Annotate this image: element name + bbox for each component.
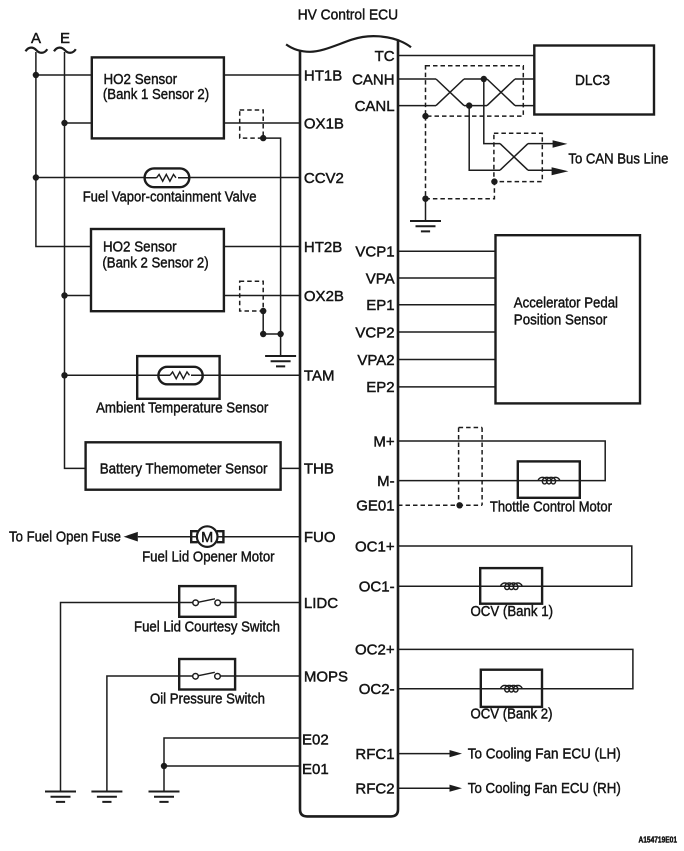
twisted pair X1 [436,79,464,106]
ambient temp sensor pill [158,367,202,385]
wire OX1B [65,122,301,124]
OCV bank1 box [480,568,542,604]
node CANH branch [481,76,487,82]
twisted pair X2 [487,79,515,106]
node shield box2 [491,178,497,184]
svg-text:CANL: CANL [355,98,395,115]
zigzag resistor TAM [170,372,190,379]
svg-text:Position Sensor: Position Sensor [514,312,607,329]
node OX1B shield [260,135,266,141]
svg-text:TAM: TAM [304,368,335,385]
svg-text:Fuel Lid Opener Motor: Fuel Lid Opener Motor [142,549,275,566]
zigzag resistor CCV2 valve [157,174,177,181]
svg-text:Thottle Control Motor: Thottle Control Motor [490,499,612,516]
svg-text:M+: M+ [373,433,394,450]
wire CCV2 [36,177,300,179]
svg-text:FUO: FUO [304,529,336,546]
motor FUO circle [191,526,223,547]
dashed wire GE01 [398,504,460,506]
ECU box HV Control ECU [286,36,411,816]
ground at CAN shield [410,221,441,231]
wire to CAN arrow upper [528,143,554,145]
svg-text:A: A [31,30,41,47]
node CANL branch [466,102,472,108]
svg-text:Fuel Lid Courtesy Switch: Fuel Lid Courtesy Switch [134,619,280,636]
ECU wavy top edge [286,36,411,52]
wire E02 [164,738,300,792]
wire TC [398,55,534,57]
wire EP2 [398,386,496,388]
wire MOPS [107,676,300,792]
dashed connector OX2B [240,281,264,311]
wire HT1B [36,74,300,76]
svg-text:CCV2: CCV2 [304,170,344,187]
dashed shield drain path [426,116,495,199]
svg-text:MOPS: MOPS [304,668,348,685]
wire M+ [398,441,605,481]
pin labels right [352,48,395,798]
svg-text:HT2B: HT2B [304,239,342,256]
wire CANL branch down [469,106,500,171]
switch contacts fuel lid courtesy [193,599,221,606]
svg-text:OX1B: OX1B [304,115,344,132]
OCV bank2 box [481,670,542,707]
motor left brush bracket [191,531,198,542]
wire THB [281,467,300,469]
ground at shield OX [265,356,296,366]
ground E01/E02 [149,792,180,802]
coil OCV2 [501,685,523,692]
svg-text:M: M [201,530,213,546]
svg-text:RFC2: RFC2 [355,781,394,798]
node shield join left [260,331,266,337]
wire OC1- [398,585,542,587]
arrow RFC1 [450,750,463,757]
svg-text:VCP1: VCP1 [355,244,394,261]
wire A vertical with corner to HT2B [36,52,92,247]
svg-text:OX2B: OX2B [304,288,344,305]
wire through oil pressure switch box [179,675,235,677]
wire VPA [398,277,496,279]
dashed shield box CAN out [494,133,542,181]
inner wires through components [137,174,580,688]
wire OC2- [398,688,542,690]
wire M- [398,480,580,482]
svg-text:E01: E01 [302,761,329,778]
svg-text:CANH: CANH [352,71,395,88]
component boxes layer [86,46,654,707]
switch contacts oil pressure [193,672,221,679]
svg-text:VCP2: VCP2 [355,324,394,341]
twisted pair X3 [500,144,528,171]
wire FUO [138,536,300,538]
fuel lid courtesy switch box [179,586,235,617]
DLC3 box [534,46,654,115]
svg-text:HV Control ECU: HV Control ECU [298,6,398,23]
wire CANH segments [398,78,534,80]
node shield gnd [422,196,428,202]
svg-text:Ambient Temperature Sensor: Ambient Temperature Sensor [96,400,268,417]
svg-text:EP1: EP1 [366,297,394,314]
node A-HT1B [33,72,39,78]
svg-text:VPA: VPA [366,270,395,287]
ambient temp sensor outer box [137,356,219,399]
svg-text:Accelerator Pedal: Accelerator Pedal [514,295,618,312]
node GE01 shield [456,502,462,508]
svg-text:(Bank 2 Sensor 2): (Bank 2 Sensor 2) [102,254,208,271]
coil throttle motor [538,477,560,484]
svg-text:E: E [60,30,70,47]
wires-layer [36,52,633,792]
svg-text:TC: TC [375,48,395,65]
svg-text:Battery Themometer Sensor: Battery Themometer Sensor [100,461,268,478]
arrow RFC2 [450,785,463,792]
HO2 sensor bank2 box [91,229,224,311]
node A-CCV2 [33,174,39,180]
svg-text:GE01: GE01 [356,498,394,515]
svg-text:HO2 Sensor: HO2 Sensor [103,239,177,256]
oil pressure switch box [179,659,235,690]
node E-OX1B [61,120,67,126]
wire HT2B [92,246,300,248]
node OX2B shield [260,308,266,314]
svg-text:OC1-: OC1- [359,579,395,596]
svg-text:M-: M- [377,473,395,490]
wire LIDC [61,603,301,792]
svg-text:OCV (Bank 2): OCV (Bank 2) [471,706,553,723]
wire shield OX1B down [263,138,280,334]
battery thermometer sensor box [86,442,281,489]
svg-text:OC1+: OC1+ [355,538,395,555]
coil OCV1 [501,583,523,590]
arrow to CAN bus lower [552,167,569,175]
svg-text:To CAN Bus Line: To CAN Bus Line [568,151,668,168]
svg-text:LIDC: LIDC [304,595,338,612]
node shield join right [277,331,283,337]
throttle control motor box [518,461,580,497]
wire CANL segments [398,105,534,107]
svg-text:To Cooling Fan ECU (LH): To Cooling Fan ECU (LH) [468,746,621,763]
ground MOPS [91,792,122,802]
node E01-E02 [161,763,167,769]
arrow to CAN bus upper [553,140,568,148]
wire VCP1 [398,250,496,252]
svg-text:OC2+: OC2+ [355,642,395,659]
svg-text:(Bank 1 Sensor 2): (Bank 1 Sensor 2) [103,86,209,103]
wire shield CAN ground [425,199,427,221]
wire RFC1 [398,753,451,755]
arrow to fuel open fuse [124,532,138,542]
connector break E [54,48,76,53]
svg-text:Fuel Vapor-containment Valve: Fuel Vapor-containment Valve [83,189,257,206]
svg-text:OCV (Bank 1): OCV (Bank 1) [471,603,554,620]
node shield box1 [422,113,428,119]
dashed connector OX1B [240,110,264,138]
wire E vertical with corner to THB [65,52,86,468]
connector break A [26,48,48,53]
wire OX2B [65,295,301,297]
motor right brush bracket [217,531,224,542]
svg-text:To Fuel Open Fuse: To Fuel Open Fuse [9,528,121,545]
wire OC2+ [398,649,633,688]
svg-text:THB: THB [304,461,334,478]
accelerator pedal position sensor box [496,235,641,403]
wire to CAN arrow lower [528,169,553,171]
wire RFC2 [398,787,451,789]
wire through throttle motor box [518,480,580,482]
svg-text:OC2-: OC2- [359,681,395,698]
wire E01 [164,765,300,767]
wire VCP2 [398,331,496,333]
svg-text:E02: E02 [302,732,329,749]
svg-text:RFC1: RFC1 [355,746,394,763]
dashed shield box CANH/CANL [426,66,524,116]
svg-text:A154719E01: A154719E01 [639,836,678,845]
wire through courtesy switch box [179,602,235,604]
wire shield OX2B down [263,311,280,356]
dashed connector GE01 box [459,428,483,506]
wire EP1 [398,304,496,306]
svg-text:Oil Pressure Switch: Oil Pressure Switch [150,691,265,708]
wire through OCV2 box [481,688,542,690]
svg-text:VPA2: VPA2 [357,352,394,369]
ground LIDC [45,792,76,802]
pin labels left [302,67,348,778]
HO2 sensor bank1 box [92,57,224,138]
svg-text:EP2: EP2 [366,379,394,396]
node E-OX2B [61,292,67,298]
svg-text:DLC3: DLC3 [575,72,610,89]
svg-text:HT1B: HT1B [304,67,342,84]
node E-TAM [61,372,67,378]
wire CANH branch down [484,79,500,144]
svg-text:To Cooling Fan ECU (RH): To Cooling Fan ECU (RH) [468,780,621,797]
wire through OCV1 box [480,585,542,587]
wire VPA2 [398,359,496,361]
valve pill CCV2 [145,168,190,187]
wire TAM [65,374,301,376]
wire OC1+ [398,546,632,586]
wire through valve pill [145,177,190,179]
wire through TAM box and pill [137,374,219,376]
